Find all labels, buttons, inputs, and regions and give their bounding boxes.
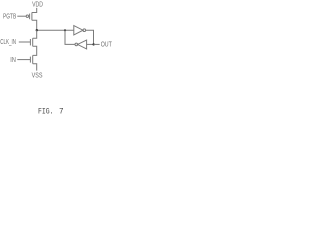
svg-text:IN: IN [10,55,16,64]
wire PGTB gate lead [17,15,26,17]
transistor M1 PMOS gate bar [29,14,31,20]
wire VDD stem and M1 source jog [32,8,37,13]
svg-text:OUT: OUT [101,39,113,48]
op-amp U2 inverter triangle [78,40,87,49]
wire CLK_IN gate lead [19,41,31,43]
transistor M2 NMOS gate bar [29,39,31,45]
transistor M3 NMOS channel bar [32,55,34,63]
svg-text:CLK_IN: CLK_IN [0,37,16,46]
wire OUT lead [94,43,100,45]
transistor M1 PMOS channel bar [31,12,33,20]
wire IN gate lead [17,59,30,61]
node C junction dot [92,43,94,45]
wire U2 input from right rail [87,43,94,45]
wire latch feedback left rail [65,30,75,44]
node A junction dot [36,29,38,31]
wire M3 source to VSS [33,64,37,71]
wire U1 output to right rail [86,30,94,44]
wire M2 source to M3 drain [33,46,37,55]
background [0,0,116,120]
node B junction dot [64,29,66,31]
op-amp U2 output bubble [75,43,78,46]
transistor M2 NMOS channel bar [32,38,34,46]
op-amp U1 inverter triangle [74,26,83,35]
wire node A to inverter U1 input [37,29,74,31]
svg-text:PGTB: PGTB [3,11,16,20]
svg-text:FIG.: FIG. [38,107,54,117]
svg-text:7: 7 [59,107,64,117]
svg-text:VDD: VDD [32,0,43,9]
op-amp U1 output bubble [83,29,86,32]
wire M2 drain [33,30,37,38]
svg-text:VSS: VSS [32,71,43,80]
transistor M1 PMOS gate bubble [26,15,28,17]
transistor M3 NMOS gate bar [29,57,31,63]
wire M1 drain to node A [32,20,37,30]
